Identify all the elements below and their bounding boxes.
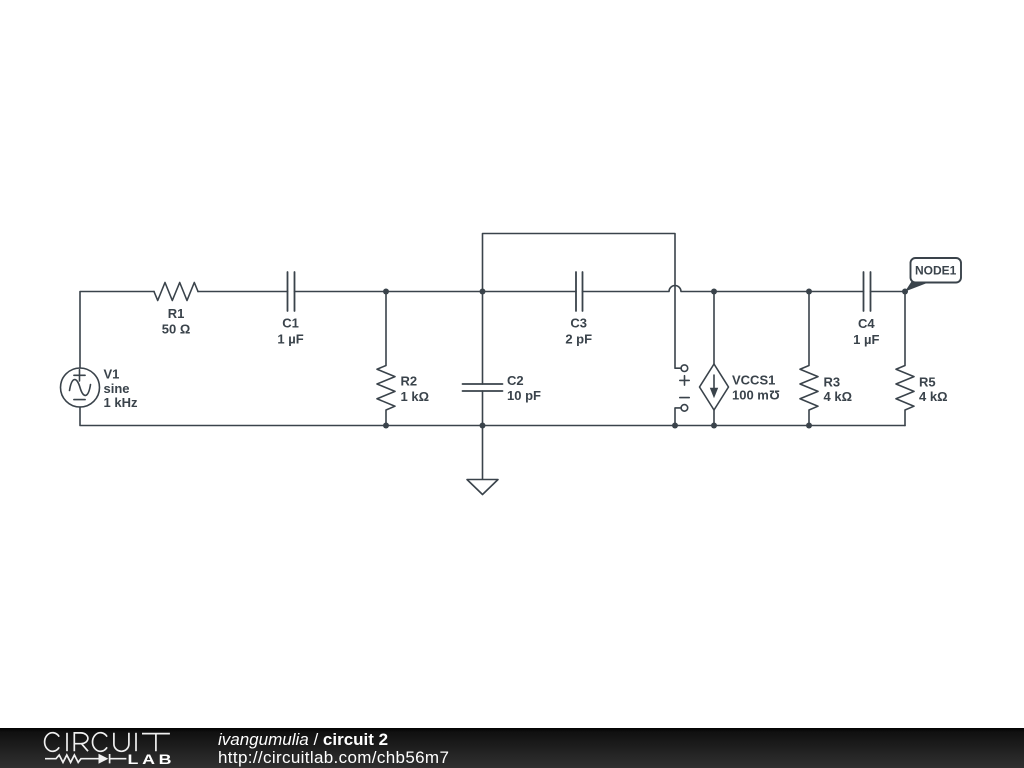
NODE1 flag pointer xyxy=(905,282,931,292)
svg-text:R5: R5 xyxy=(919,375,936,390)
svg-text:4 kΩ: 4 kΩ xyxy=(919,389,948,404)
junction dot VCCS1 top xyxy=(711,289,717,295)
wire C1 to R2/C2 nodes and C3 xyxy=(295,291,577,293)
source V1 circle xyxy=(61,368,100,407)
svg-text:Ω: Ω xyxy=(769,388,779,403)
VCCS minus terminal circle xyxy=(681,405,688,412)
svg-text:1 µF: 1 µF xyxy=(853,332,879,347)
junction dot C2/ground xyxy=(480,423,486,429)
logo letter U xyxy=(114,733,129,751)
resistor R3 vertical with stubs xyxy=(800,292,818,426)
svg-text:VCCS1: VCCS1 xyxy=(732,373,775,388)
svg-text:R1: R1 xyxy=(168,306,185,321)
wire VCCS top to R3 top to C4 xyxy=(714,291,864,293)
svg-text:1 kHz: 1 kHz xyxy=(104,395,138,410)
capacitor C2 plates xyxy=(463,384,503,391)
svg-text:2 pF: 2 pF xyxy=(565,332,592,347)
top loop wire C3 bypass xyxy=(483,234,682,369)
VCCS1 stubs xyxy=(713,292,715,426)
svg-text:C1: C1 xyxy=(282,316,299,331)
wire R1 to C1 xyxy=(198,291,288,293)
logo letter C xyxy=(92,733,107,752)
svg-text:NODE1: NODE1 xyxy=(915,264,957,278)
svg-text:C4: C4 xyxy=(858,316,875,331)
logo letter I xyxy=(66,733,68,751)
VCCS1 minus sense wire xyxy=(675,408,681,426)
logo letter R xyxy=(74,733,88,751)
V1 sine wave xyxy=(70,380,91,396)
NODE1 flag box xyxy=(911,258,962,283)
svg-text:V1: V1 xyxy=(104,367,120,382)
ground xyxy=(467,426,498,495)
svg-text:C3: C3 xyxy=(570,316,587,331)
svg-text:R2: R2 xyxy=(401,374,418,389)
junction dot R3 top xyxy=(806,289,812,295)
capacitor C2 with stubs xyxy=(482,292,484,426)
capacitor C1 xyxy=(288,272,295,311)
wire left loop: V1 top to R1 xyxy=(80,292,154,369)
junction dot VCCS1 bottom xyxy=(711,423,717,429)
svg-text:sine: sine xyxy=(104,381,130,396)
VCCS minus sign xyxy=(680,397,689,399)
CircuitLab logo xyxy=(0,728,190,768)
junction dot R2 top xyxy=(383,289,389,295)
logo letter C xyxy=(45,733,60,752)
VCCS1 diamond xyxy=(700,364,729,410)
svg-text:1 kΩ: 1 kΩ xyxy=(401,389,430,404)
logo letter T xyxy=(142,734,170,752)
svg-text:4 kΩ: 4 kΩ xyxy=(824,389,853,404)
VCCS1 arrow head xyxy=(710,388,718,399)
NODE1 connection dot xyxy=(902,289,908,295)
footer title text xyxy=(218,731,449,767)
svg-text:50 Ω: 50 Ω xyxy=(162,322,191,337)
wire C3 to hop to VCCS top xyxy=(583,286,715,292)
svg-text:1 µF: 1 µF xyxy=(277,332,303,347)
V1 minus sign xyxy=(74,399,85,401)
resistor R5 vertical with stubs xyxy=(896,292,914,426)
capacitor C4 xyxy=(864,272,871,311)
svg-text:10 pF: 10 pF xyxy=(507,388,541,403)
V1 plus sign xyxy=(74,370,85,381)
junction dot R2 bottom xyxy=(383,423,389,429)
logo letter I xyxy=(135,733,137,751)
bottom rail wire xyxy=(80,407,905,426)
junction dot R3 bottom xyxy=(806,423,812,429)
VCCS1 arrow shaft xyxy=(713,375,715,390)
logo resistor squiggle xyxy=(45,755,99,762)
logo diode triangle xyxy=(99,754,109,764)
VCCS plus sign xyxy=(680,376,689,385)
svg-text:LAB: LAB xyxy=(128,753,176,768)
VCCS plus terminal circle xyxy=(681,365,688,372)
svg-text:100 m: 100 m xyxy=(732,388,769,403)
resistor R2 vertical with stubs xyxy=(377,292,395,426)
junction dot VCCS1 minus sense bottom xyxy=(672,423,678,429)
svg-text:C2: C2 xyxy=(507,373,524,388)
junction dot C2/C3-loop top xyxy=(480,289,486,295)
resistor R1 xyxy=(154,283,198,301)
logo diode bar and wire xyxy=(110,754,127,763)
wire C4 to NODE1 point xyxy=(871,291,906,293)
footer bar xyxy=(0,728,1024,768)
svg-text:R3: R3 xyxy=(824,375,841,390)
capacitor C3 xyxy=(576,272,583,311)
